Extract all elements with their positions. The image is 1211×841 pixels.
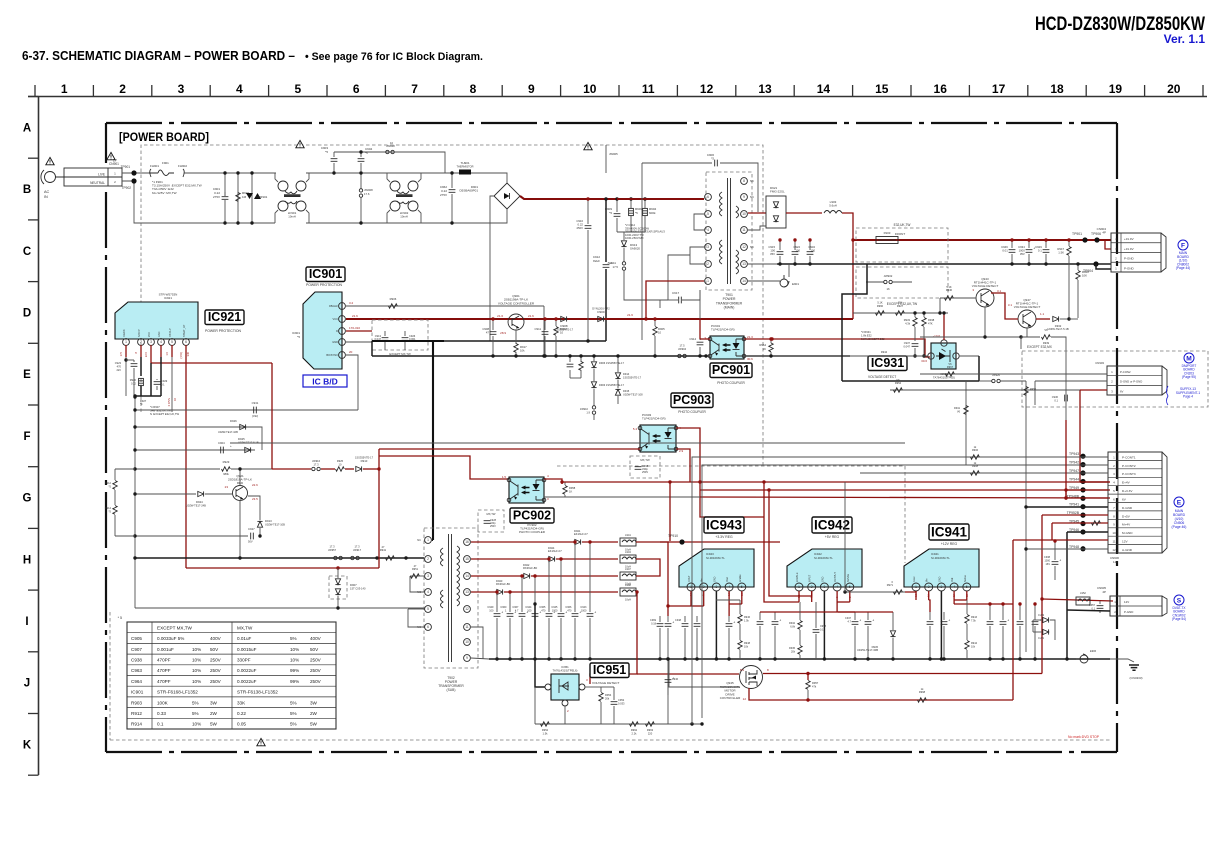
capacitor C911	[542, 332, 549, 335]
svg-text:0.0033uF 5%: 0.0033uF 5%	[157, 636, 184, 641]
svg-text:100K: 100K	[157, 700, 169, 705]
wire q943 emitter	[984, 307, 986, 337]
svg-text:D913: D913	[265, 519, 272, 523]
regulator IC941 body	[904, 549, 979, 587]
resistor R941	[386, 556, 395, 560]
svg-text:11: 11	[465, 625, 469, 629]
node	[586, 197, 589, 200]
node	[1033, 602, 1036, 605]
svg-text:START_UP: START_UP	[183, 324, 186, 337]
node rail junction	[375, 556, 378, 559]
AC plug symbol	[41, 170, 64, 184]
capacitor C929	[1043, 250, 1050, 253]
wire C908 low	[492, 336, 494, 356]
svg-text:IC921: IC921	[208, 310, 241, 324]
svg-text:5.6uH: 5.6uH	[829, 204, 836, 208]
node	[592, 354, 595, 357]
svg-text:14: 14	[817, 82, 831, 96]
svg-text:D907: D907	[350, 583, 357, 587]
left ruler tick 2	[28, 219, 39, 221]
node	[554, 317, 557, 320]
AC inlet housing	[64, 168, 122, 186]
resistor R964	[769, 343, 773, 352]
wire ic951 right gray	[585, 686, 601, 688]
left ruler tick 6	[28, 466, 39, 468]
wire C916 low	[569, 370, 571, 378]
svg-text:C904: C904	[218, 441, 225, 445]
test point TP943	[1080, 454, 1085, 459]
wire red riser x637 to IC951	[590, 592, 637, 684]
capacitor C917	[679, 297, 682, 304]
power board outer border top	[106, 122, 1117, 124]
svg-text:U0ZW-TE17-10B: U0ZW-TE17-10B	[265, 522, 285, 526]
test point TP942	[1080, 462, 1085, 467]
T902 pin 9	[464, 655, 471, 662]
svg-text:5W: 5W	[310, 722, 318, 727]
svg-text:C937: C937	[904, 341, 911, 345]
wire q921 out	[248, 496, 260, 520]
node	[543, 317, 546, 320]
node d913 join	[258, 534, 261, 537]
node	[1018, 657, 1021, 660]
svg-text:13: 13	[465, 590, 469, 594]
svg-text:EXCEPT MX,TW: EXCEPT MX,TW	[157, 625, 193, 630]
wire d907 low lead	[337, 596, 339, 608]
node	[913, 354, 916, 357]
wire C909 lead	[616, 199, 618, 212]
T901 pin 14	[741, 278, 748, 285]
wire C944 lower lead	[534, 618, 536, 659]
wire rail y410 to IC901 BO	[135, 409, 358, 411]
ruler tick 13	[793, 85, 795, 96]
wire +3.3 rail y542 feed	[636, 541, 780, 543]
svg-text:0.1: 0.1	[1054, 398, 1058, 402]
resistor R957	[806, 681, 810, 690]
svg-text:R952: R952	[542, 728, 549, 732]
IC921 pin 3 VCC	[148, 339, 155, 346]
svg-text:CU#1: CU#1	[1038, 637, 1045, 640]
wire C969 top	[659, 616, 661, 622]
svg-text:C911: C911	[535, 327, 542, 331]
wire pin5 stub	[408, 608, 424, 610]
wire d925 row	[135, 449, 255, 451]
wire IC941 vin from caps	[929, 600, 930, 612]
wire C965 upper lead	[548, 559, 550, 612]
svg-text:D908: D908	[560, 324, 568, 328]
wire vertical bus x1026	[1025, 381, 1027, 652]
T901 core	[728, 178, 731, 284]
svg-text:17.5: 17.5	[613, 265, 619, 269]
wire Q945 out to 5V riser	[763, 673, 1042, 675]
wire R920 low	[140, 386, 142, 396]
wire P-CONT3	[860, 472, 1108, 474]
wire C955 top	[1019, 604, 1021, 620]
svg-text:0.22: 0.22	[237, 711, 246, 716]
svg-text:1.5: 1.5	[502, 475, 507, 479]
test point column and E connector	[1108, 452, 1167, 553]
wire gnd riser	[371, 341, 373, 356]
wire C914 lead from winding	[699, 290, 701, 340]
svg-text:+: +	[872, 619, 874, 623]
wire M-GND into pin10	[1067, 531, 1108, 533]
capacitor C904	[358, 159, 365, 162]
wire IC901 D pin	[346, 330, 372, 332]
node pin1 branch	[124, 358, 127, 361]
svg-text:(Page 46): (Page 46)	[1172, 525, 1187, 529]
svg-text:LIVE: LIVE	[98, 173, 105, 177]
wire B+ to T901 pin6	[617, 198, 704, 200]
svg-text:+: +	[610, 262, 612, 266]
wire startup rail y568	[186, 567, 379, 569]
svg-text:15K: 15K	[898, 301, 903, 305]
transistor Q921	[233, 486, 248, 501]
svg-text:AC: AC	[44, 190, 50, 194]
svg-text:22.5: 22.5	[144, 351, 148, 357]
wire IC942 out rail	[760, 611, 838, 613]
left ruler tick 10	[28, 713, 39, 715]
wire Q901 base down	[515, 330, 517, 344]
svg-text:1SS355VTE-17: 1SS355VTE-17	[623, 375, 642, 379]
node	[942, 657, 945, 660]
svg-text:17.3: 17.3	[329, 545, 335, 549]
svg-text:1: 1	[915, 585, 917, 589]
wire C908 lead	[492, 319, 494, 330]
wire A-GND into pin12	[1026, 548, 1108, 550]
svg-text:H: H	[23, 554, 31, 566]
wire q943 base	[940, 297, 976, 299]
test point TP906	[1094, 237, 1099, 242]
svg-text:0.05: 0.05	[237, 722, 246, 727]
svg-text:• See page 76 for IC Block Dia: • See page 76 for IC Block Diagram.	[305, 51, 483, 63]
wire r929 to red net	[231, 468, 272, 470]
jumper JW920	[992, 379, 1001, 382]
svg-text:R914: R914	[131, 722, 142, 727]
svg-text:S: S	[1177, 597, 1182, 604]
svg-text:3W: 3W	[310, 700, 318, 705]
svg-text:1ST C03-140: 1ST C03-140	[350, 586, 366, 590]
wire thick to pin1	[432, 539, 433, 541]
svg-text:C927: C927	[248, 527, 255, 531]
svg-text:R906: R906	[390, 297, 397, 301]
svg-text:L943: L943	[625, 550, 631, 554]
svg-text:5: 5	[707, 212, 709, 216]
svg-text:TP948: TP948	[1069, 545, 1079, 549]
wire IC901 GND pin	[346, 342, 372, 356]
svg-text:D903 1SS355VTE-17: D903 1SS355VTE-17	[599, 383, 625, 387]
ruler tick 20	[1202, 85, 1204, 96]
node	[635, 590, 638, 593]
capacitor C901	[222, 197, 229, 200]
svg-text:NC: NC	[750, 245, 754, 249]
svg-text:VOLTAGE DETECT: VOLTAGE DETECT	[868, 375, 896, 379]
node B+ C912	[604, 197, 607, 200]
T902 pin 5	[425, 606, 432, 613]
resistor R968	[918, 698, 927, 702]
jumper JW928	[386, 150, 395, 153]
svg-text:10mH: 10mH	[288, 215, 295, 219]
wire emitter rail y337	[920, 336, 1021, 338]
svg-text:E+4V: E+4V	[1122, 481, 1131, 485]
capacitor C944	[532, 611, 542, 617]
wire C960 lower lead	[509, 618, 511, 659]
wire C970 low	[684, 628, 686, 659]
svg-text:TP942: TP942	[1069, 461, 1079, 465]
capacitor C938b	[1052, 559, 1062, 565]
test point TP948	[1080, 546, 1085, 551]
IC921 pin 4 GND	[158, 339, 165, 346]
wire C972 low	[696, 628, 698, 659]
node	[1010, 238, 1013, 241]
line filter LF901	[278, 181, 306, 211]
wire r954 low	[600, 702, 602, 724]
wire C904 lead	[360, 152, 362, 157]
T901 secondary winding	[736, 206, 739, 274]
svg-text:TP941: TP941	[1069, 503, 1079, 507]
left ruler tick 8	[28, 589, 39, 591]
IC901 pin BO/SYNC	[339, 352, 346, 359]
svg-text:1SS355VTE-17: 1SS355VTE-17	[355, 456, 374, 460]
node startup tap	[336, 566, 339, 569]
svg-text:+: +	[501, 611, 503, 615]
svg-text:6V: 6V	[1120, 389, 1124, 393]
power board outer border right	[1116, 123, 1118, 752]
svg-text:N :EXCEPT E32,UK,TW: N :EXCEPT E32,UK,TW	[150, 412, 180, 416]
left lower dashed boundary	[109, 612, 111, 740]
wire r942 mid	[799, 630, 801, 645]
node	[238, 467, 241, 470]
test point TP901b	[1082, 237, 1087, 242]
wire into lf901 bottom	[275, 210, 278, 223]
svg-text:2kV: 2kV	[117, 368, 122, 372]
capacitor C952	[611, 702, 618, 705]
IC label IC901	[306, 267, 345, 282]
node C944 tap	[533, 574, 536, 577]
left ruler tick 4	[28, 342, 39, 344]
wire out rail to C947	[838, 611, 855, 613]
wire c958 top	[815, 602, 817, 628]
svg-text:0.33: 0.33	[157, 711, 166, 716]
node	[236, 221, 239, 224]
svg-text:TP949: TP949	[1069, 486, 1079, 490]
node	[586, 339, 589, 342]
E32 UK TW option boxes	[856, 228, 948, 262]
svg-text:D-GND: D-GND	[1122, 506, 1133, 510]
svg-text:47K: 47K	[928, 321, 933, 325]
svg-text:275V: 275V	[440, 193, 447, 197]
capacitor C969	[657, 624, 664, 627]
svg-text:R914: R914	[105, 506, 112, 510]
wire IC941 pin2 stub	[928, 591, 930, 600]
wire R905 lead	[654, 319, 656, 326]
T901 pin 1	[705, 278, 712, 285]
svg-text:17.3: 17.3	[313, 462, 319, 466]
svg-text:+: +	[594, 611, 596, 615]
T902 pin 1	[425, 537, 432, 544]
wire riser x845	[844, 482, 846, 592]
wire pin13 to P-GND bus	[748, 263, 777, 265]
wire pin3 red tap	[150, 357, 152, 363]
wire x-cap rail	[334, 151, 445, 153]
capacitor C916	[567, 364, 574, 367]
wire dgnd drop	[1034, 381, 1036, 405]
wire 6V riser to y482	[1079, 390, 1081, 482]
zener D932 U0ZW-TE17-5.1B	[1053, 316, 1059, 321]
test point TP910	[679, 539, 684, 544]
svg-text:21.6: 21.6	[627, 313, 633, 317]
wire R904 lead	[644, 199, 646, 208]
node	[843, 590, 846, 593]
wire live rail to LF901	[184, 172, 276, 174]
ruler tick 12	[735, 85, 737, 96]
wire 6V row gray part	[544, 496, 700, 498]
svg-text:10: 10	[465, 640, 469, 644]
svg-text:12: 12	[742, 245, 746, 249]
node	[808, 262, 811, 265]
wire C946b low	[774, 626, 776, 659]
svg-text:D: D	[336, 329, 338, 333]
wire red drop x272	[271, 363, 273, 469]
svg-text:16: 16	[465, 540, 469, 544]
wire C966 lower lead	[574, 618, 576, 659]
capacitor C955	[1017, 622, 1024, 625]
svg-text:3: 3	[941, 585, 943, 589]
svg-text:22.6: 22.6	[252, 483, 258, 487]
wire d924 to q921	[205, 493, 232, 495]
wire IC943 pin4 stub	[728, 591, 730, 600]
wire cap C927 bottom lead	[809, 256, 811, 264]
diode D907 element b	[335, 589, 340, 595]
svg-text:10: 10	[658, 331, 662, 335]
node	[866, 657, 869, 660]
node	[853, 657, 856, 660]
wire q921 collector up	[239, 469, 241, 486]
wire r938 top	[923, 313, 925, 317]
svg-text:TP901: TP901	[1072, 232, 1082, 236]
wire c937 low	[914, 348, 916, 356]
svg-text:TP904: TP904	[1083, 269, 1093, 273]
svg-text:D-GND or P-GND: D-GND or P-GND	[1120, 380, 1142, 384]
wire cap C927 top lead	[809, 240, 811, 250]
capacitor C946b	[772, 619, 782, 625]
wire D906 lead	[593, 356, 595, 361]
node	[543, 354, 546, 357]
wire JW905 chassis link	[605, 145, 607, 173]
svg-text:K: K	[23, 739, 32, 751]
svg-text:2: 2	[427, 557, 429, 561]
capacitor C926	[402, 338, 409, 341]
svg-text:J: J	[24, 678, 30, 690]
node C945 tap	[559, 557, 562, 560]
svg-text:C938: C938	[131, 658, 142, 663]
node feedback gnd bus	[542, 354, 545, 357]
svg-text:STR-F6138-LF1352: STR-F6138-LF1352	[237, 690, 278, 695]
node	[666, 657, 669, 660]
IC931 voltage detector	[931, 343, 956, 369]
node	[533, 602, 536, 605]
node r964 top	[769, 337, 772, 340]
svg-text:D915: D915	[623, 389, 630, 393]
svg-text:1: 1	[61, 82, 68, 96]
node	[491, 354, 494, 357]
svg-text:C964: C964	[131, 679, 142, 684]
svg-text:220: 220	[648, 731, 653, 735]
wire into lf901 top	[275, 173, 278, 182]
svg-text:(C9J): (C9J)	[252, 414, 258, 418]
stub	[564, 489, 566, 491]
svg-text:C923: C923	[115, 361, 122, 365]
resistor R906b	[971, 455, 980, 459]
svg-text:SENSE: SENSE	[847, 573, 850, 582]
svg-text:2P: 2P	[1102, 590, 1106, 594]
wire R947 top	[1068, 240, 1070, 246]
wire long gray rail y443	[230, 442, 905, 444]
svg-text:+31.9V: +31.9V	[1124, 247, 1134, 251]
svg-text:L947: L947	[625, 567, 631, 571]
wire IC943 pin2 stub	[703, 591, 705, 600]
svg-text:L948: L948	[625, 583, 631, 587]
svg-text:STR-W5753N: STR-W5753N	[159, 293, 178, 297]
line filter LF902	[390, 181, 418, 211]
svg-text:Page 4: Page 4	[1183, 395, 1193, 399]
jumper JW902	[884, 280, 893, 283]
wire IC943 in join	[691, 605, 704, 607]
svg-text:I: I	[25, 616, 28, 628]
wire R904 low lead	[644, 216, 646, 232]
left ruler tick 5	[28, 404, 39, 406]
svg-text:VOLTAGE DETECT: VOLTAGE DETECT	[972, 284, 999, 288]
node y482 x700	[698, 480, 701, 483]
diode D948	[1043, 617, 1049, 622]
svg-text:275V: 275V	[213, 195, 220, 199]
resistor R925	[336, 467, 345, 471]
spark gap E906	[1076, 654, 1088, 663]
bridge rectifier D901	[494, 183, 520, 209]
inductor L948	[620, 588, 636, 596]
svg-text:EK16LF-F7: EK16LF-F7	[548, 549, 562, 553]
node pc902 join	[560, 480, 563, 483]
inductor L952	[1076, 597, 1091, 605]
wire C942c low	[667, 684, 669, 695]
ruler tick 6	[384, 85, 386, 96]
svg-text:IC941: IC941	[931, 524, 968, 539]
svg-text:PC901: PC901	[712, 363, 750, 377]
resistor R948	[738, 641, 742, 650]
jumper JW917	[351, 556, 360, 559]
resistor R962	[630, 722, 639, 726]
wire main rail to T902 pin2	[135, 557, 424, 559]
svg-text:0 P/VN: 0 P/VN	[167, 398, 171, 406]
ruler tick 1	[92, 85, 94, 96]
wire IC942 pin1 stub	[798, 591, 800, 602]
wire c952 top	[613, 687, 615, 700]
IC951 pin left	[545, 684, 551, 690]
svg-text:V6: V6	[896, 378, 900, 382]
svg-text:JW902: JW902	[884, 274, 893, 278]
node 6v riser	[1064, 496, 1067, 499]
dual diode D907	[329, 576, 347, 599]
primary side isolation dashed boundary	[141, 145, 763, 466]
svg-text:9: 9	[528, 82, 535, 96]
wire d945 top	[892, 612, 894, 630]
ruler tick 9	[560, 85, 562, 96]
svg-text:5: 5	[849, 585, 851, 589]
wire P-GND bus to CN904	[777, 263, 1111, 265]
MX TW box under PC903	[630, 456, 660, 478]
diode D909 DYNL20U-TR2	[598, 316, 604, 321]
wire R964 low	[770, 352, 772, 356]
svg-text:33K: 33K	[237, 700, 246, 705]
svg-text:V6: V6	[948, 362, 952, 366]
